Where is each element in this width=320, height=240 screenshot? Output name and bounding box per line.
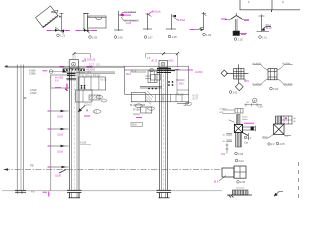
detail D7 label [234, 37, 243, 41]
svg-text:M24: M24 [244, 80, 249, 83]
svg-text:Bl 80x8: Bl 80x8 [177, 19, 186, 22]
detail R3 main square with X [234, 124, 242, 132]
detail R7 base plate with hatch [227, 188, 252, 198]
svg-text:Bl 6: Bl 6 [214, 181, 219, 184]
svg-text:2.03: 2.03 [238, 152, 244, 156]
right cluster magenta labels [126, 60, 203, 86]
svg-text:IPE140: IPE140 [176, 95, 184, 97]
right column cap box [159, 61, 168, 68]
svg-text:2.05: 2.05 [280, 142, 286, 146]
detail D2 label [89, 35, 98, 39]
svg-text:1.08: 1.08 [172, 35, 178, 39]
svg-text:Kp 100x10: Kp 100x10 [125, 11, 137, 14]
left column base [67, 190, 82, 198]
right cluster diag hatch [146, 91, 154, 105]
detail R4 hatch bar [276, 116, 282, 124]
detail R4 leaders [263, 135, 292, 139]
detail R3 left dim line with magenta [226, 144, 229, 154]
eave line [4, 65, 189, 67]
svg-text:2: 2 [282, 0, 284, 4]
svg-text:Kp 10: Kp 10 [101, 80, 108, 82]
detail R3 bottom label [235, 152, 244, 156]
magenta vertical mark on column edge [66, 84, 68, 90]
detail D8 label [259, 35, 268, 39]
right column shaft [160, 68, 168, 191]
right cluster leader texts below [130, 104, 189, 117]
detail R1 diamond below [235, 83, 243, 91]
svg-text:Gu 40x4: Gu 40x4 [253, 63, 262, 65]
detail R2 section with flange leaders [268, 69, 277, 80]
left cluster flange bolt dots [63, 69, 85, 71]
right cluster boxed label [131, 123, 143, 127]
svg-text:HEA200: HEA200 [87, 68, 96, 71]
detail D4 label [144, 35, 153, 39]
detail R3 circled a and dim [244, 98, 262, 106]
svg-text:2.2: 2.2 [271, 143, 275, 146]
detail D8 post with Z-step [257, 14, 272, 31]
right cluster big rectangle [125, 66, 189, 105]
left column shaft [70, 68, 80, 191]
svg-text:40: 40 [293, 121, 296, 123]
svg-text:U100: U100 [57, 134, 64, 137]
svg-text:M20: M20 [169, 60, 174, 63]
detail R3 top-left leader [229, 120, 235, 123]
detail D4 magenta leader [149, 12, 154, 15]
detail D2 magenta dim ends [76, 30, 98, 32]
detail R4 square with X [274, 124, 285, 135]
svg-text:Bl 15: Bl 15 [152, 60, 158, 63]
right cluster bolts [148, 81, 173, 89]
right column eave bolt cluster [157, 69, 175, 73]
section mark A at left column [78, 106, 85, 113]
detail R3 side labels [244, 136, 252, 145]
girt line 4 [48, 166, 69, 178]
eave magenta dashes near left column [60, 66, 93, 68]
detail D2 column stub with beam [76, 14, 106, 34]
detail D6 label [203, 33, 212, 37]
detail R1 column section with diamonds [226, 64, 249, 83]
girt line 1 [48, 110, 69, 119]
detail D1 magenta dim ends [47, 30, 71, 32]
left column eave bolt cluster [63, 68, 86, 72]
left cluster hatch stiffener [89, 95, 100, 100]
svg-text:U100: U100 [57, 116, 64, 119]
svg-text:Gu 40x4: Gu 40x4 [282, 63, 291, 65]
svg-text:3.540: 3.540 [30, 91, 37, 95]
svg-text:Bl 8: Bl 8 [132, 124, 137, 127]
detail R1 magenta label [243, 79, 249, 83]
svg-text:U100: U100 [55, 175, 62, 178]
svg-text:M16: M16 [179, 83, 184, 86]
svg-text:A: A [86, 109, 89, 113]
svg-text:PS': PS' [31, 189, 35, 193]
svg-text:8.8: 8.8 [55, 79, 59, 82]
detail R2 label [270, 87, 279, 91]
svg-text:U100: U100 [57, 151, 64, 154]
detail R3 right arm [243, 126, 256, 131]
detail R7 arrow right [274, 192, 283, 197]
left cluster bolt dots [81, 85, 86, 89]
girt line 2 [48, 128, 69, 137]
svg-text:90: 90 [247, 102, 250, 104]
title block table top right [240, 0, 302, 12]
detail D6 magenta dash [190, 29, 195, 31]
detail D5 post [166, 14, 177, 30]
right cluster connection lines under eave [130, 72, 162, 88]
detail D4 post [143, 13, 152, 30]
detail R4 label [276, 142, 285, 146]
svg-text:Fl 60x8: Fl 60x8 [133, 110, 141, 112]
right cluster inner boxes [131, 71, 157, 113]
svg-text:120x10: 120x10 [84, 105, 92, 107]
detail R1 diamond left [221, 70, 228, 77]
svg-text:2x45: 2x45 [126, 22, 132, 25]
detail D3 label [114, 35, 123, 39]
left cluster magenta labels [55, 59, 96, 83]
left bracket box on column [51, 75, 70, 91]
svg-text:0.5: 0.5 [147, 58, 151, 60]
svg-text:4xM20: 4xM20 [195, 71, 203, 74]
svg-text:Gu 40x4: Gu 40x4 [253, 83, 262, 85]
svg-text:A 120: A 120 [80, 142, 87, 145]
svg-text:1.07: 1.07 [148, 35, 154, 39]
detail D3 post with leaders [114, 11, 137, 31]
girt line 3 [48, 145, 69, 154]
dimension chain texts [29, 69, 37, 194]
svg-text:Kr 25: Kr 25 [193, 95, 199, 98]
detail R3 lower-right leader [243, 133, 249, 141]
grid line (dash-dot) [4, 168, 223, 170]
svg-text:Bl 200x15: Bl 200x15 [84, 59, 96, 62]
svg-text:2.2: 2.2 [285, 136, 289, 138]
left wall lines [15, 65, 26, 194]
detail D5 label [168, 35, 177, 39]
svg-text:Cut: Cut [244, 141, 248, 145]
svg-text:Bl 60: Bl 60 [266, 27, 272, 30]
svg-text:M16: M16 [87, 72, 92, 74]
svg-text:Kopfpl.: Kopfpl. [133, 114, 141, 116]
detail R3 bottom label2 [235, 159, 244, 163]
detail R1 label [229, 90, 238, 94]
svg-text:M12: M12 [126, 73, 131, 76]
detail D6 post with step base [190, 12, 207, 31]
hinge boxes below right cap [145, 75, 161, 81]
vertical girt support line [50, 75, 52, 192]
ground line [2, 190, 222, 192]
svg-text:160: 160 [221, 153, 226, 156]
ground magenta marks [43, 192, 49, 197]
detail D1 tilted plate [35, 6, 69, 34]
left column cap box [69, 54, 78, 68]
svg-text:3.980: 3.980 [29, 72, 36, 76]
svg-text:40: 40 [223, 134, 226, 136]
detail R3 left tick marks [226, 134, 232, 142]
svg-text:2.01: 2.01 [233, 90, 239, 94]
detail D7 magenta dashes [221, 19, 249, 34]
left cluster small text rows [80, 64, 107, 106]
svg-text:A 50: A 50 [258, 106, 263, 109]
svg-text:Bl 120x10x180: Bl 120x10x180 [130, 105, 146, 107]
svg-text:Bl 8: Bl 8 [220, 112, 225, 114]
detail R6 label [237, 180, 246, 184]
svg-text:Bl 10: Bl 10 [263, 136, 269, 138]
detail R3 top hatch bar [236, 115, 240, 125]
circle symbol near eave [49, 70, 69, 74]
small label right of R3 arm [268, 143, 275, 146]
svg-text:1.06: 1.06 [118, 35, 124, 39]
svg-text:40: 40 [223, 141, 226, 143]
svg-text:Bl 60x6: Bl 60x6 [153, 11, 162, 14]
svg-text:1.09: 1.09 [206, 33, 212, 37]
svg-text:2.06: 2.06 [240, 180, 246, 184]
svg-text:2.1: 2.1 [248, 136, 252, 140]
detail R3 bottom hatched arm [236, 133, 242, 148]
svg-text:2.02: 2.02 [273, 87, 279, 91]
detail R6 double rectangle [219, 166, 246, 181]
svg-text:2.04: 2.04 [239, 159, 245, 163]
svg-text:2 Bl 100x10 IPE160: 2 Bl 100x10 IPE160 [80, 75, 101, 77]
detail D3 magenta arrow and text [120, 14, 131, 16]
detail D1 label [57, 34, 66, 38]
left cluster oval tags [96, 95, 107, 102]
magenta dash right of right column bolts [175, 69, 179, 71]
svg-text:Gu 40x4: Gu 40x4 [284, 83, 293, 85]
svg-text:4x M16: 4x M16 [220, 109, 228, 111]
svg-text:PS': PS' [30, 163, 34, 167]
svg-text:1: 1 [248, 0, 250, 4]
svg-text:40: 40 [293, 118, 296, 120]
right edge dashed border [298, 162, 300, 198]
top dimension line between columns [73, 52, 179, 67]
svg-text:St 37: St 37 [193, 98, 199, 101]
svg-text:10.5: 10.5 [82, 61, 87, 63]
circle symbol left of right column [150, 68, 154, 72]
svg-text:1.21: 1.21 [60, 34, 66, 38]
left cluster beam outline [76, 72, 116, 102]
right cluster texts [97, 58, 199, 101]
svg-text:D 27: D 27 [89, 64, 95, 66]
svg-text:1.10: 1.10 [238, 37, 244, 41]
detail R3 bolt grid with leaders [223, 109, 244, 114]
svg-text:1.05: 1.05 [92, 35, 98, 39]
svg-text:Bl 10: Bl 10 [131, 71, 137, 73]
right column base [157, 190, 172, 198]
svg-text:1.11: 1.11 [262, 35, 267, 39]
detail D7 hat with black base box [225, 13, 249, 36]
magenta dash under bracket box [55, 87, 61, 89]
magenta dash near circle [43, 70, 48, 72]
